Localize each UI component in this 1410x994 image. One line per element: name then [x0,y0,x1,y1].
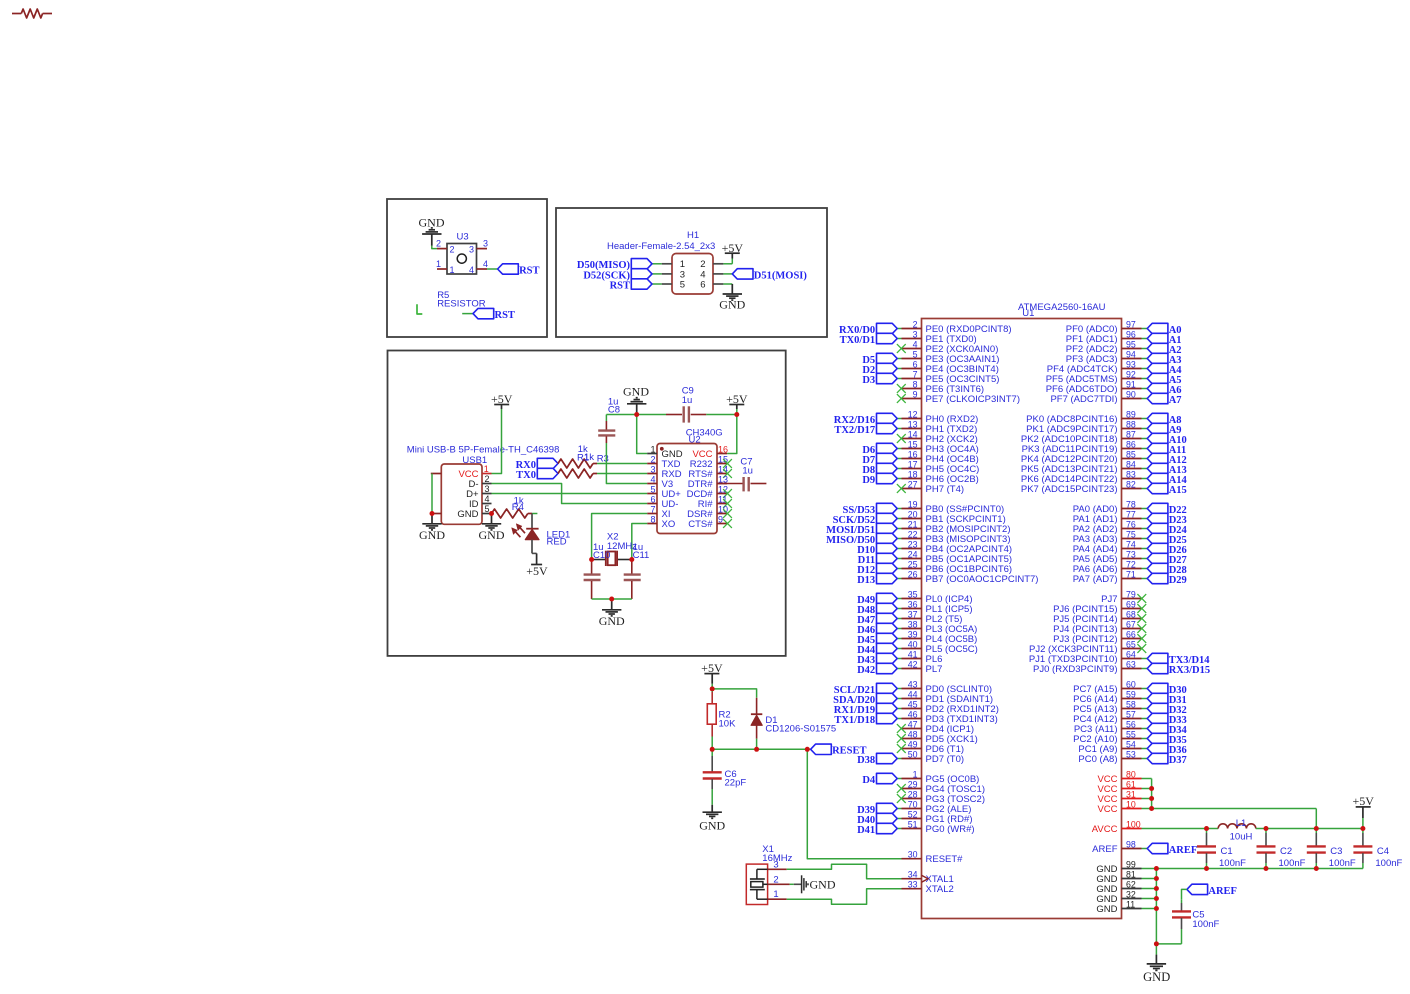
svg-text:GND: GND [1143,970,1170,984]
USB1 pin D- [468,474,491,490]
U2 pin 5 UD+ [647,484,681,500]
svg-text:78: 78 [1126,499,1136,509]
junction C2 top [1264,826,1269,831]
node D38 [857,753,897,766]
wire D37 to pin 53 [1142,758,1148,760]
U1 pin 26 PB7 (OC0AOC1CPCINT7) [902,569,1039,585]
svg-text:10K: 10K [719,718,737,729]
U1 pin 56 PC3 (A11) [1074,719,1142,735]
U1 pin 60 PC7 (A15) [1073,679,1141,695]
node D10 [857,543,897,556]
node D32 [1147,703,1187,716]
wire MOSI/D51 to pin 21 [897,528,901,530]
junction reset a [710,747,715,752]
wire D7 to pin 16 [897,458,901,460]
svg-text:51: 51 [908,819,918,829]
svg-text:D13: D13 [857,575,875,586]
label X1 16MHz [762,844,792,864]
svg-text:C2: C2 [1280,846,1292,857]
U1 pin 9 PE7 (CLKOICP3INT7) [902,389,1021,405]
svg-text:59: 59 [1126,689,1136,699]
svg-text:3: 3 [483,239,488,249]
svg-text:16: 16 [718,444,728,454]
wire D+ to U2.UD+ [492,493,648,495]
svg-text:83: 83 [1126,469,1136,479]
node D31 [1147,693,1187,706]
no-connect pin 9 [897,394,906,403]
no-connect pin 4 [897,344,906,353]
wire D45 to pin 39 [897,638,901,640]
svg-text:4: 4 [483,259,488,269]
wire A9 to pin 88 [1142,428,1148,430]
U2 pin 3 RXD [647,464,681,480]
capacitor C9 [666,406,706,422]
node RX0 [516,458,558,471]
wire D40 to pin 52 [897,818,901,820]
power +5V (H1) [722,241,744,255]
U1 pin 86 PK3 (ADC11PCINT19) [1022,439,1142,455]
svg-text:96: 96 [1126,329,1136,339]
U1 pin 93 PF4 (ADC4TCK) [1047,359,1142,375]
svg-text:PL7: PL7 [926,664,943,675]
U1 pin 27 PH7 (T4) [902,479,965,495]
capacitor C5 [1172,899,1191,944]
wire reset to U1 [807,749,902,858]
wire to L1 [1207,828,1219,830]
no-connect pin 66 [1137,634,1146,643]
no-connect pin 47 [897,724,906,733]
U1 pin 25 PB6 (OC1BPCINT6) [902,559,1013,575]
node D22 [1147,503,1187,516]
wire D26 to pin 74 [1142,548,1148,550]
svg-text:100nF: 100nF [1192,919,1219,930]
IC U1 body [922,319,1122,919]
node D39 [857,803,897,816]
svg-text:AREF: AREF [1208,886,1237,897]
svg-text:GND: GND [457,509,478,520]
node A14 [1147,473,1187,486]
wire A0 to pin 97 [1142,328,1148,330]
U1 pin 52 PG1 (RD#) [902,809,973,825]
wire D36 to pin 54 [1142,748,1148,750]
svg-text:91: 91 [1126,379,1136,389]
node A6 [1147,383,1181,396]
svg-text:29: 29 [908,779,918,789]
svg-text:PJ0 (RXD3PCINT9): PJ0 (RXD3PCINT9) [1033,664,1117,675]
node D2 [862,363,897,376]
label R4 1k [512,495,524,513]
svg-text:73: 73 [1126,549,1136,559]
wire C5 gnd [1156,943,1181,945]
svg-text:CD1206-S01575: CD1206-S01575 [765,723,836,734]
node A5 [1147,373,1181,386]
svg-text:GND: GND [699,819,725,833]
U2 pin 12 DCD# [687,484,732,500]
svg-text:34: 34 [908,870,918,880]
svg-text:VCC: VCC [1097,804,1117,815]
wire +5V to D1 [712,689,756,698]
svg-text:15: 15 [908,439,918,449]
wire D41 to pin 51 [897,828,901,830]
node D46 [857,623,897,636]
svg-text:37: 37 [908,609,918,619]
wire RX3/D15 to pin 63 [1142,668,1148,670]
svg-text:1: 1 [773,889,778,900]
node SCK/D52 [833,513,898,526]
svg-text:RED: RED [547,536,567,547]
svg-text:GND: GND [419,528,445,542]
svg-text:5: 5 [485,504,490,514]
U1 pin 61 VCC [1097,779,1141,795]
junction GND 2 [1154,886,1159,891]
U2 pin 15 R232 [690,454,732,470]
U1 pin 15 PH3 (OC4A) [902,439,979,455]
wire VCC rail [1142,779,1317,829]
H1 pin 4 [700,269,723,280]
U2 pin 7 XI [647,504,670,520]
U1 pin 58 PC5 (A13) [1073,699,1141,715]
U1 pin 85 PK4 (ADC12PCINT20) [1021,449,1142,465]
svg-text:2: 2 [650,454,655,464]
resistor symbol (unplaced, top-left) [12,9,52,18]
label L1 10uH [1230,818,1253,842]
node D51(MOSI) [732,269,807,282]
U1 pin 76 PA2 (AD2) [1073,519,1142,535]
node D40 [857,813,897,826]
no-connect pin 68 [1137,614,1146,623]
crystal X1 [746,864,767,904]
node RX3/D15 [1147,663,1210,676]
label D1 CD1206-S01575 [765,715,836,734]
wire A8 to pin 89 [1142,418,1148,420]
svg-text:L1: L1 [1236,818,1247,829]
U1 pin 67 PJ4 (PCINT13) [1053,619,1141,635]
USB1 pin GND [457,504,491,520]
power +5V (right) [1352,794,1374,828]
U1 pin 57 PC4 (A12) [1073,709,1141,725]
U1 pin 50 PD7 (T0) [902,749,965,765]
svg-text:40: 40 [908,639,918,649]
U1 pin 7 PE5 (OC3CINT5) [902,369,1000,385]
junction USB GND [489,511,494,516]
junction GND C2 [1264,866,1269,871]
H1 pin 6 [700,279,723,290]
wire D6 to pin 15 [897,448,901,450]
U1 pin 43 PD0 (SCLINT0) [902,679,993,695]
USB1 pin ID [469,494,492,510]
node TX0/D1 [840,333,898,346]
svg-text:PA7 (AD7): PA7 (AD7) [1073,574,1118,585]
wire D24 to pin 76 [1142,528,1148,530]
wire A13 to pin 84 [1142,468,1148,470]
node AREF (pin98) [1147,843,1197,856]
node A0 [1147,323,1181,336]
wire D22 to pin 78 [1142,508,1148,510]
power +5V (top) [726,392,748,415]
wire D39 to pin 70 [897,808,901,810]
svg-text:RST: RST [610,280,630,291]
svg-text:56: 56 [1126,719,1136,729]
junction reset c [805,747,810,752]
node A11 [1147,443,1186,456]
wire A3 to pin 94 [1142,358,1148,360]
svg-text:9: 9 [718,514,723,524]
wire D30 to pin 60 [1142,688,1148,690]
U1 pin 100 AVCC [1092,819,1142,835]
wire L1 to +5V [1256,828,1363,830]
svg-text:92: 92 [1126,369,1136,379]
node TX2/D17 [834,423,897,436]
ground (H1) [719,294,745,312]
svg-text:8: 8 [913,379,918,389]
junction VCC 61 [1149,786,1154,791]
svg-text:D51(MOSI): D51(MOSI) [754,270,808,281]
node D5 [862,353,897,366]
wire D43 to pin 41 [897,658,901,660]
node D35 [1147,733,1187,746]
wire D38 to pin 50 [897,758,901,760]
USB1 pin D+ [466,484,491,500]
X1 pin 3 [768,859,787,870]
node D28 [1147,563,1187,576]
svg-text:GND: GND [1096,904,1117,915]
svg-text:38: 38 [908,619,918,629]
node A2 [1147,343,1181,356]
no-connect pin 14 [897,434,906,443]
svg-text:Header-Female-2.54_2x3: Header-Female-2.54_2x3 [607,241,715,252]
wire D23 to pin 77 [1142,518,1148,520]
wire gnd to U2.GND [637,415,648,454]
U1 pin 17 PH5 (OC4C) [902,459,980,475]
svg-text:PH7 (T4): PH7 (T4) [926,484,965,495]
U1 pin 41 PL6 [902,649,943,665]
node D33 [1147,713,1187,726]
svg-text:36: 36 [908,599,918,609]
node A10 [1147,433,1187,446]
node D37 [1147,753,1187,766]
svg-text:100nF: 100nF [1279,858,1306,869]
junction reset b [754,747,759,752]
junction GND 0 [1154,866,1159,871]
wire X1.1 to XTAL2 [787,889,902,905]
svg-text:+5V: +5V [722,241,744,255]
junction +5V reset [710,686,715,691]
diode D1 [751,698,762,750]
no-connect pin 49 [897,744,906,753]
svg-text:70: 70 [908,799,918,809]
power +5V (USB) [491,392,513,409]
node D36 [1147,743,1187,756]
node D4 [862,773,897,786]
U1 pin 21 PB2 (MOSIPCINT2) [902,519,1011,535]
svg-text:53: 53 [1126,749,1136,759]
connector H1 body [672,254,713,295]
node RST (U3) [498,264,540,277]
resistor R4 [492,509,533,518]
wire A5 to pin 92 [1142,378,1148,380]
capacitor C6 [703,749,722,805]
svg-text:4: 4 [485,494,490,504]
ground (USB left) [419,514,445,543]
U2 pin 13 DTR# [688,474,728,490]
svg-text:3: 3 [485,484,490,494]
U1 pin 88 PK1 (ADC9PCINT17) [1026,419,1141,435]
svg-text:PF7 (ADC7TDI): PF7 (ADC7TDI) [1050,394,1117,405]
U1 pin 24 PB5 (OC1APCINT5) [902,549,1013,565]
svg-text:63: 63 [1126,659,1136,669]
svg-text:RST: RST [495,310,515,321]
svg-text:1: 1 [913,769,918,779]
node MISO/D50 [826,533,897,546]
svg-text:RST: RST [519,265,539,276]
svg-text:1k: 1k [584,452,594,463]
svg-text:Mini USB-B 5P-Female-TH_C46398: Mini USB-B 5P-Female-TH_C46398 [407,444,560,455]
wire D35 to pin 55 [1142,738,1148,740]
U1 pin 39 PL4 (OC5B) [902,629,978,645]
wire D46 to pin 38 [897,628,901,630]
svg-text:18: 18 [908,469,918,479]
LED LED1 [512,514,539,554]
capacitor C4 [1353,829,1372,869]
U1 pin 55 PC2 (A10) [1073,729,1141,745]
U1 pin 80 VCC [1097,769,1141,785]
junction C4 top [1360,826,1365,831]
svg-text:2: 2 [913,319,918,329]
node A8 [1147,413,1181,426]
wire top rail to C9 [637,414,666,416]
svg-text:3: 3 [650,464,655,474]
svg-text:16: 16 [908,449,918,459]
svg-text:GND: GND [719,298,745,312]
U2 pin 9 CTS# [688,514,732,530]
wire A2 to pin 95 [1142,348,1148,350]
svg-text:TX0/D1: TX0/D1 [840,335,876,346]
node A15 [1147,483,1187,496]
node RX1/D19 [834,703,897,716]
wire top rail left [606,414,636,416]
node D45 [857,633,897,646]
junction XO [629,557,634,562]
junction GND bottom [1154,941,1159,946]
node D30 [1147,683,1187,696]
node TX3/D14 [1147,653,1210,666]
label R1 1k [577,444,594,464]
svg-text:PB7 (OC0AOC1CPCINT7): PB7 (OC0AOC1CPCINT7) [926,574,1039,585]
wire RX2/D16 to pin 12 [897,418,901,420]
wire A1 to pin 96 [1142,338,1148,340]
node AREF (C5) [1187,884,1237,897]
svg-text:AREF: AREF [1169,845,1198,856]
junction VCC 10 [1149,806,1154,811]
node D25 [1147,533,1187,546]
svg-text:98: 98 [1126,839,1136,849]
U1 pin 19 PB0 (SS#PCINT0) [902,499,1005,515]
svg-text:1: 1 [450,265,455,275]
wire SCK/D52 to pin 20 [897,518,901,520]
wire C9 to +5V [706,414,737,416]
wire to RST flag 2 [462,313,473,315]
wire TX3/D14 to pin 64 [1142,658,1148,660]
junction VCC 31 [1149,796,1154,801]
svg-text:R4: R4 [512,502,524,513]
U1 pin 34 XTAL1 [902,870,954,886]
svg-text:XTAL2: XTAL2 [926,884,954,895]
svg-text:66: 66 [1126,629,1136,639]
svg-text:67: 67 [1126,619,1136,629]
svg-text:5: 5 [913,349,918,359]
photocoupler U3 [447,231,477,274]
node SDA/D20 [833,693,897,706]
capacitor C2 [1257,829,1276,869]
svg-text:100nF: 100nF [1219,858,1246,869]
ground (top) [627,398,646,415]
svg-text:32: 32 [1126,889,1136,899]
svg-text:55: 55 [1126,729,1136,739]
label C8 1u [608,397,620,416]
node D23 [1147,513,1187,526]
svg-text:19: 19 [908,499,918,509]
U1 pin 16 PH4 (OC4B) [902,449,979,465]
svg-text:47: 47 [908,719,918,729]
U1 pin 89 PK0 (ADC8PCINT16) [1026,409,1141,425]
svg-text:C1: C1 [1221,846,1233,857]
svg-text:68: 68 [1126,609,1136,619]
H1 pin 3 [662,269,685,280]
wire D5 to pin 5 [897,358,901,360]
svg-text:100nF: 100nF [1329,858,1356,869]
svg-text:4: 4 [913,339,918,349]
svg-text:20: 20 [908,509,918,519]
node TX1/D18 [834,713,897,726]
svg-text:1: 1 [484,464,489,474]
U1 pin 42 PL7 [902,659,943,675]
U1 pin 69 PJ6 (PCINT15) [1053,599,1141,615]
svg-text:12: 12 [908,409,918,419]
U1 pin 79 PJ7 [1101,589,1141,605]
node D48 [857,603,897,616]
U1 pin 12 PH0 (RXD2) [902,409,979,425]
U1 pin 83 PK6 (ADC14PCINT22) [1021,469,1142,485]
wire C8 to U2.V3 [606,443,647,484]
U1 pin 54 PC1 (A9) [1078,739,1141,755]
U3 pin 3 [477,239,489,249]
node D29 [1147,573,1187,586]
wire D29 to pin 71 [1142,578,1148,580]
wire R1 to U2.TXD [597,463,647,465]
resistor R5 (unplaced mark) [417,304,422,314]
node D6 [862,443,897,456]
capacitor C10 [584,560,601,600]
svg-text:43: 43 [908,679,918,689]
svg-text:5: 5 [650,484,655,494]
IC U2 body [657,444,717,534]
U1 pin 90 PF7 (ADC7TDI) [1050,389,1141,405]
wire USB VCC to +5V [492,409,502,474]
svg-text:3: 3 [913,329,918,339]
U1 pin 73 PA5 (AD5) [1073,549,1142,565]
U1 pin 18 PH6 (OC2B) [902,469,979,485]
svg-text:2: 2 [450,245,455,255]
svg-text:PE7 (CLKOICP3INT7): PE7 (CLKOICP3INT7) [926,394,1021,405]
label X2 12MHz [607,531,637,552]
node A7 [1147,393,1181,406]
svg-text:+5V: +5V [726,392,748,406]
U2 pin 10 DSR# [687,504,732,520]
junction GND C1 [1204,866,1209,871]
svg-text:74: 74 [1126,539,1136,549]
svg-text:D29: D29 [1169,575,1187,586]
svg-text:C3: C3 [1330,846,1342,857]
